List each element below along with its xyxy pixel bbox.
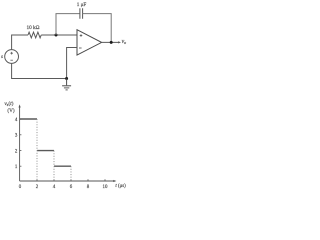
wire op-amp output [102,41,120,43]
wire resistor to op-amp + input [41,34,77,36]
waveform step 2V [37,150,54,152]
svg-text:1 μF: 1 μF [77,2,87,8]
y tick 2 [20,150,22,152]
svg-text:vo: vo [122,39,127,45]
capacitor C1 [80,8,83,19]
svg-text:t (μs): t (μs) [115,184,126,189]
waveform step 1V [54,165,71,167]
y-axis [19,107,21,182]
x ticks [37,179,105,181]
svg-text:(V): (V) [7,107,14,114]
node ground junction [65,77,68,80]
svg-text:10 kΩ: 10 kΩ [27,25,40,31]
dotted guide at t=2 [36,119,38,181]
wire junction up to capacitor [56,14,80,35]
node junction at inverting path [55,34,58,37]
y tick 4 [20,118,22,120]
x-axis arrowhead [113,180,116,182]
arrowhead output [118,41,121,43]
op-amp U1 [77,30,102,55]
dotted guide at t=4 [53,151,55,181]
ground [62,79,71,90]
y-axis arrowhead [19,104,21,107]
y tick 3 [20,134,22,136]
voltage source VS [5,50,19,64]
wire capacitor to output node [83,14,112,43]
x-axis [20,180,115,182]
waveform step 4V [20,118,37,120]
wire source top to resistor [12,35,28,50]
wire op-amp minus input to ground rail [67,48,77,79]
svg-text:vs(t): vs(t) [4,100,13,107]
y tick 1 [20,165,22,167]
wire source bottom to ground junction [12,63,67,78]
svg-text:10: 10 [103,185,108,190]
resistor R1 [28,32,41,38]
node output [110,41,113,44]
svg-text:s: s [1,55,3,60]
dotted guide at t=6 [70,166,72,181]
